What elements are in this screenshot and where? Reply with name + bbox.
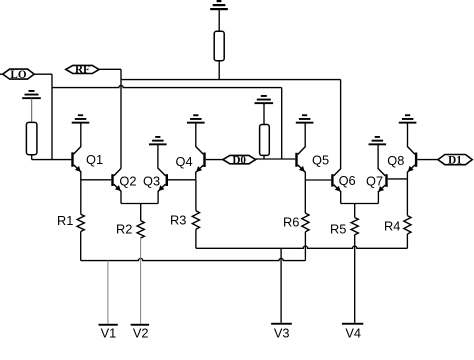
svg-text:Q1: Q1 bbox=[86, 152, 103, 167]
wire G4 to RM bbox=[263, 103, 265, 124]
wire R4 down to rail A end bbox=[406, 234, 408, 248]
wire Q5 emitter down to R6 bbox=[304, 172, 306, 213]
terminal V1 bar bbox=[99, 324, 118, 326]
resistor R3 bbox=[192, 211, 199, 229]
wire RF vertical to Q2 collector bbox=[120, 69, 122, 168]
ground G4 middle bias bbox=[255, 95, 274, 104]
wire G5 to Q5 collector bbox=[304, 123, 306, 148]
wire bus2 LO rail y=87.6 (hops over Q2 collector line) bbox=[52, 85, 282, 87]
wire Q4 emitter down to node bbox=[195, 172, 197, 180]
svg-text:Q4: Q4 bbox=[176, 154, 193, 169]
svg-text:V4: V4 bbox=[345, 325, 361, 340]
wire Q1 emitter to Q2 base bbox=[81, 179, 112, 181]
wire Q8 base to port D1 bbox=[417, 159, 438, 161]
svg-text:Q5: Q5 bbox=[312, 153, 329, 168]
wire G1b to Q4 collector bbox=[195, 123, 197, 147]
svg-text:LO: LO bbox=[10, 69, 26, 81]
wire LO to corner bbox=[34, 73, 52, 75]
wire bus2 drop to D0 node bbox=[281, 88, 283, 159]
ground G1 above Q1 bbox=[72, 114, 90, 123]
wire bus1 RF collector rail y=79.6 bbox=[121, 79, 341, 81]
wire G0 to RL bbox=[31, 98, 33, 122]
port RF bbox=[66, 64, 99, 76]
svg-text:D0: D0 bbox=[232, 154, 246, 166]
transistor Q7 bbox=[378, 168, 388, 192]
wire G7 to Q8 collector bbox=[407, 123, 409, 147]
svg-text:R1: R1 bbox=[57, 213, 73, 228]
ground G2 above Q3 bbox=[149, 136, 167, 145]
svg-text:Q2: Q2 bbox=[119, 174, 136, 189]
wire rail B y=260.6 (hops over V2 and V3 leads) bbox=[81, 258, 306, 260]
wire G3 to top resistor bbox=[218, 9, 220, 31]
transistor Q3 bbox=[158, 168, 168, 191]
wire V3 lead (from rail A, hops under rail B) bbox=[280, 248, 282, 322]
terminal V2 bar bbox=[131, 324, 149, 326]
svg-text:V3: V3 bbox=[274, 325, 290, 340]
port D0 bbox=[223, 154, 256, 166]
wire Q1 emitter down to R1 bbox=[80, 172, 82, 215]
wire RT to bus RF bbox=[218, 61, 220, 80]
wire G2 to Q3 collector bbox=[157, 144, 159, 168]
wire R1 to rail B bbox=[80, 232, 82, 261]
wire bus1 right drop to Q6 collector bbox=[340, 80, 342, 169]
ground G5 above Q5 bbox=[296, 114, 314, 123]
transistor Q1 bbox=[71, 146, 81, 172]
svg-text:RF: RF bbox=[75, 64, 90, 76]
terminal V3 bar bbox=[271, 323, 292, 325]
svg-text:R3: R3 bbox=[170, 213, 186, 228]
wire V2 lead (from R2, hops under rail B) bbox=[140, 238, 142, 324]
port LO bbox=[3, 69, 35, 81]
svg-text:R2: R2 bbox=[116, 222, 132, 237]
transistor Q4 bbox=[196, 147, 206, 173]
ground G3 top supply bbox=[210, 0, 228, 10]
svg-text:D1: D1 bbox=[448, 154, 462, 166]
wire RF to corner bbox=[99, 68, 121, 70]
resistor R5 bbox=[351, 218, 358, 235]
ground G6 above Q7 bbox=[369, 136, 387, 145]
wire Q4 emitter node down to R3 bbox=[195, 180, 197, 211]
ground G7 above Q8 bbox=[399, 114, 417, 123]
svg-text:V1: V1 bbox=[101, 326, 117, 341]
wire G1 to Q1 collector bbox=[80, 123, 82, 147]
svg-text:V2: V2 bbox=[133, 326, 149, 341]
wire R3 to rail A bbox=[195, 229, 197, 248]
wire G6 to Q7 collector bbox=[377, 144, 379, 168]
svg-text:R4: R4 bbox=[384, 219, 400, 234]
port D1 bbox=[438, 154, 472, 166]
resistor RM (middle bias, rectangle) bbox=[260, 125, 270, 156]
wire D0 node to Q5 base bbox=[256, 158, 296, 160]
svg-text:Q6: Q6 bbox=[339, 173, 356, 188]
resistor R2 bbox=[137, 221, 144, 238]
ground G1b above Q4 bbox=[187, 114, 205, 123]
svg-text:R5: R5 bbox=[330, 222, 346, 237]
transistor Q2 bbox=[111, 168, 121, 191]
resistor RL (left bias, rectangle) bbox=[26, 122, 37, 154]
wire Q2-Q3 shared emitter bbox=[121, 203, 158, 205]
wire shared emitter to R2 bbox=[140, 204, 142, 221]
wire LO vertical to Q1 base bbox=[51, 74, 53, 159]
resistor RT (top bias, rectangle) bbox=[214, 31, 224, 61]
wire Q5 emitter to Q6 base bbox=[305, 179, 331, 181]
wire Q8 emitter node down to R4 bbox=[406, 179, 408, 216]
resistor R1 bbox=[77, 214, 84, 231]
wire Q6 emitter down bbox=[340, 192, 342, 204]
wire shared emitter to R5 bbox=[354, 204, 356, 218]
resistor R6 bbox=[302, 213, 309, 232]
wire Q7 base to Q8 emitter node bbox=[388, 178, 408, 180]
wire R6 down to rail B end bbox=[304, 232, 306, 261]
wire Q7 emitter down bbox=[377, 192, 379, 204]
transistor Q6 bbox=[331, 168, 341, 192]
transistor Q5 bbox=[295, 147, 305, 172]
svg-text:Q8: Q8 bbox=[387, 153, 404, 168]
wire V1 lead bbox=[107, 261, 109, 324]
wire RM to D0 node bbox=[263, 155, 265, 159]
wire Q8 emitter down to node bbox=[406, 172, 408, 179]
wire Q3 base to Q4 emitter node bbox=[168, 179, 196, 181]
wire Q4 base to port D0 bbox=[206, 159, 223, 161]
wire V4 lead (from R5, hops under rail A) bbox=[354, 235, 356, 323]
terminal V4 bar bbox=[342, 323, 363, 325]
svg-text:R6: R6 bbox=[283, 215, 299, 230]
wire Q6-Q7 shared emitter bbox=[341, 203, 379, 205]
svg-text:Q3: Q3 bbox=[143, 174, 160, 189]
wire Q2 emitter down bbox=[120, 191, 122, 204]
wire Q3 emitter down bbox=[157, 191, 159, 204]
wire rail A y=248.3 (hops over R6 and R5 leads) bbox=[196, 246, 408, 248]
wire LO stub to left edge bbox=[0, 73, 4, 75]
wire RL to Q1 base wire bbox=[31, 155, 33, 160]
transistor Q8 bbox=[407, 147, 417, 173]
ground G0 left bias bbox=[22, 90, 41, 99]
svg-text:Q7: Q7 bbox=[366, 174, 383, 189]
wire Q1 base node bbox=[32, 159, 72, 161]
resistor R4 bbox=[404, 216, 411, 234]
